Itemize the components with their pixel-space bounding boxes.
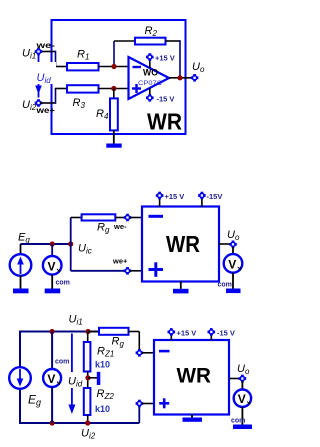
svg-text:com: com	[218, 282, 232, 289]
node U_i2	[35, 99, 43, 107]
junction dot (voltmeter tap, middle)	[50, 241, 55, 246]
output wire	[169, 77, 192, 79]
wire Rg to we- node (bottom)	[129, 332, 140, 351]
node we- (middle)	[124, 214, 132, 222]
+15V terminal (middle)	[156, 192, 164, 207]
WR block (bottom)	[154, 340, 229, 415]
resistor R2	[135, 38, 166, 45]
node we- (bottom)	[136, 349, 144, 357]
wire junction to Rg (middle)	[71, 218, 82, 245]
junction dot top (voltmeter, bottom ckt)	[50, 329, 55, 334]
left loop wires	[19, 331, 21, 425]
svg-text:we-: we-	[113, 222, 127, 231]
top circuit enclosure box	[52, 20, 186, 134]
wire we+ node to WR (bottom)	[142, 403, 154, 405]
svg-text:+15 V: +15 V	[177, 328, 197, 337]
svg-text:V: V	[47, 372, 55, 386]
wire U_i1 dot to Rg (bottom)	[88, 331, 99, 333]
wire junction to we+ (middle)	[71, 244, 125, 271]
svg-text:V: V	[238, 392, 246, 406]
wire U_i2 to R3	[40, 89, 67, 104]
voltmeter V2 (middle output)	[224, 247, 243, 289]
svg-text:WR: WR	[166, 231, 200, 257]
-15V terminal (bottom)	[208, 328, 216, 340]
+15V terminal (top)	[146, 53, 154, 68]
voltmeter (bottom left)	[43, 332, 61, 424]
svg-text:com: com	[55, 359, 69, 366]
wire we- node to WR box (middle)	[130, 217, 142, 219]
junction dot bottom (voltmeter, bottom ckt)	[50, 420, 55, 425]
resistor R_Z2 (bottom)	[84, 388, 91, 423]
node U_o (bottom)	[239, 375, 247, 383]
node U_o (middle)	[229, 241, 237, 249]
ground voltmeter (bottom output)	[233, 425, 252, 430]
svg-text:-15V: -15V	[207, 192, 223, 201]
wire R2 to output node	[166, 40, 181, 78]
top wire (bottom circuit)	[20, 331, 99, 333]
svg-text:k10: k10	[95, 359, 110, 369]
svg-text:V: V	[228, 258, 236, 272]
wire R3 to node B	[99, 88, 129, 90]
ground (top circuit)	[106, 144, 121, 148]
svg-text:k10: k10	[95, 404, 110, 414]
svg-text:WR: WR	[177, 364, 212, 388]
node we+ (bottom)	[136, 400, 144, 408]
wire bottom wire up to we+ node (bottom)	[138, 406, 140, 423]
resistor Rg (bottom)	[99, 328, 129, 335]
junction dot U_ic (middle)	[68, 241, 73, 246]
svg-text:com: com	[56, 280, 70, 287]
svg-text:we+: we+	[112, 257, 128, 266]
wire we- node to WR (bottom)	[142, 352, 154, 354]
voltmeter V1 (middle)	[43, 244, 62, 289]
svg-text:CP07C: CP07C	[138, 80, 162, 87]
resistor Rg (middle)	[82, 214, 116, 220]
U_id arrow (top)	[34, 55, 56, 98]
output wire (middle)	[219, 243, 231, 245]
-15V terminal (middle)	[198, 192, 206, 207]
svg-text:WR: WR	[147, 109, 182, 135]
node U_i1	[35, 48, 43, 56]
resistor R1	[67, 63, 99, 70]
svg-text:-15 V: -15 V	[217, 328, 235, 337]
svg-text:+15 V: +15 V	[155, 54, 175, 63]
svg-text:we-: we-	[35, 40, 55, 50]
ground under WR (middle)	[173, 282, 189, 294]
ground voltmeter V2 (middle)	[226, 289, 241, 294]
svg-text:V: V	[48, 260, 56, 274]
wire we+ node to WR box (middle)	[130, 270, 142, 272]
ground voltmeter V1 (middle)	[45, 289, 61, 294]
wire Rg to node we- (middle)	[115, 217, 125, 219]
svg-text:-15 V: -15 V	[157, 95, 175, 104]
junction dot U_i2 (bottom)	[85, 420, 90, 425]
feedback wire node A to R2	[114, 41, 135, 67]
node we+ (middle)	[124, 267, 132, 275]
U_id arrow (bottom)	[66, 334, 86, 415]
-15V terminal (top)	[146, 88, 154, 102]
svg-text:we+: we+	[35, 105, 55, 115]
ground under WR (bottom)	[183, 415, 203, 422]
source E_g (middle)	[10, 244, 32, 289]
junction node B dot	[111, 86, 116, 91]
source E_g (bottom)	[9, 367, 31, 389]
junction node A dot	[111, 64, 116, 69]
svg-text:+15 V: +15 V	[165, 192, 185, 201]
resistor R3	[67, 85, 99, 92]
main wire (middle)	[21, 243, 71, 245]
bottom wire (bottom circuit)	[20, 422, 139, 424]
svg-text:com: com	[231, 418, 245, 425]
resistor R_Z1 (bottom)	[84, 332, 91, 389]
node U_o (top)	[191, 74, 199, 82]
junction dot U_i1 (bottom)	[85, 329, 90, 334]
output wire (bottom)	[229, 378, 240, 380]
ground E_g (middle)	[13, 289, 29, 294]
wire U_i1 to R1	[40, 51, 67, 67]
tap junction dot (between R_Z1 R_Z2)	[85, 375, 90, 380]
output junction dot	[177, 75, 182, 80]
voltmeter V (bottom output)	[234, 381, 251, 425]
op-amp U1	[129, 57, 170, 99]
resistor R4	[110, 89, 118, 144]
+15V terminal (bottom)	[168, 328, 176, 340]
svg-text:WO: WO	[143, 68, 158, 78]
wire R1 to node A	[99, 66, 129, 68]
tap wire and terminal bar	[88, 372, 100, 385]
WR block (middle)	[142, 207, 219, 282]
